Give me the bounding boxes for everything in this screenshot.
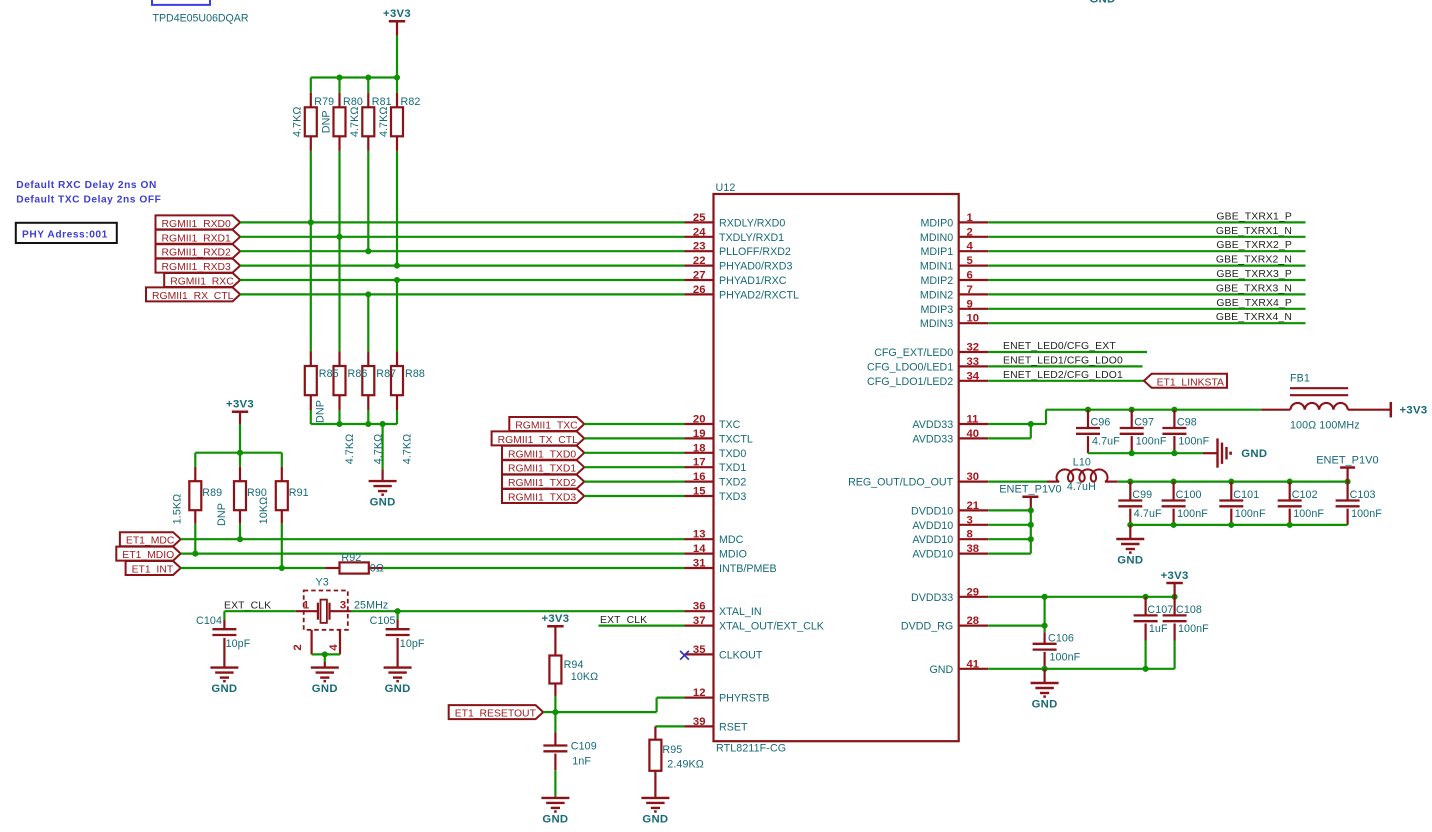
svg-text:TXD1: TXD1	[719, 462, 746, 474]
svg-text:GND: GND	[542, 814, 568, 826]
resistor R82 4.7KΩ	[378, 78, 403, 151]
svg-text:RGMII1_RXD0: RGMII1_RXD0	[162, 219, 232, 230]
svg-text:TXD3: TXD3	[719, 491, 746, 503]
wire R91 to row	[281, 524, 283, 568]
svg-text:DNP: DNP	[314, 400, 326, 423]
svg-text:AVDD10: AVDD10	[912, 549, 953, 561]
svg-text:0Ω: 0Ω	[370, 563, 384, 575]
resistor R91 10KΩ	[258, 453, 309, 525]
pin 35 CLKOUT	[685, 644, 763, 662]
svg-text:21: 21	[967, 500, 980, 512]
power +3V3 (after FB1)	[1391, 402, 1428, 418]
wire DVDD10 pin 21	[988, 509, 1031, 511]
svg-text:RGMII1_RX_CTL: RGMII1_RX_CTL	[152, 291, 234, 302]
junction gnd rail/C100	[1171, 522, 1177, 528]
svg-text:40: 40	[967, 428, 980, 440]
resistor R88 4.7KΩ	[391, 351, 413, 464]
svg-text:16: 16	[693, 471, 706, 483]
wire R81 to RXD2	[367, 151, 369, 251]
junction AVDD10 pin21	[1028, 507, 1034, 513]
svg-text:GND: GND	[312, 683, 338, 695]
svg-text:RGMII1_TXD1: RGMII1_TXD1	[508, 464, 576, 475]
pin 12 PHYRSTB	[685, 687, 770, 705]
svg-text:U12: U12	[716, 182, 736, 194]
junction Y3 ground stem	[322, 651, 328, 657]
wire ENET_LED1/CFG_LDO0	[988, 365, 1142, 367]
svg-text:DVDD10: DVDD10	[911, 505, 953, 517]
junction RXD0/R79	[308, 219, 314, 225]
pin 25 RXDLY/RXD0	[685, 212, 786, 230]
ground (AVDD33 caps)	[1203, 438, 1267, 467]
svg-text:10KΩ: 10KΩ	[258, 497, 270, 524]
label TPD4E05U06DQAR	[153, 13, 249, 25]
svg-text:R89: R89	[202, 487, 222, 499]
wire RGMII1_TXC	[584, 423, 684, 425]
wire R89-R91 top rail	[195, 452, 281, 454]
svg-text:1nF: 1nF	[572, 756, 591, 768]
pin 11 AVDD33	[912, 414, 988, 432]
svg-text:100nF: 100nF	[1136, 436, 1167, 448]
svg-text:GBE_TXRX4_P: GBE_TXRX4_P	[1216, 298, 1292, 309]
svg-text:MDIP1: MDIP1	[921, 246, 954, 258]
svg-text:DVDD33: DVDD33	[911, 592, 953, 604]
junction AVDD33/C96	[1085, 407, 1091, 413]
svg-text:RGMII1_TXD3: RGMII1_TXD3	[508, 493, 576, 504]
wire DVDD_RG pin 28	[988, 624, 1044, 626]
svg-text:+3V3: +3V3	[226, 399, 254, 411]
junction AVDD33/C98	[1171, 407, 1177, 413]
svg-text:ET1_INT: ET1_INT	[132, 565, 174, 576]
wire AVDD10 pin 8	[988, 538, 1031, 540]
note: Default TXC Delay 2ns OFF	[16, 195, 161, 206]
label R79	[314, 96, 334, 108]
label ENET_LED2/CFG_LDO1	[1003, 370, 1123, 381]
net flag RGMII1_TX_CTL	[492, 431, 585, 446]
svg-text:2: 2	[292, 644, 304, 650]
wire GBE_TXRX1_P	[988, 221, 1305, 223]
pin 17 TXD1	[685, 457, 747, 475]
label R88	[405, 368, 425, 380]
svg-text:DVDD_RG: DVDD_RG	[901, 621, 953, 633]
wire R82 to RXD3	[396, 151, 398, 266]
wire DVDD33 pin 29	[988, 596, 1174, 598]
ferrite bead FB1 100R 100MHz	[1261, 373, 1391, 432]
svg-text:25MHz: 25MHz	[354, 600, 388, 612]
pin 26 PHYAD2/RXCTL	[685, 284, 800, 302]
svg-text:C105: C105	[370, 615, 396, 627]
junction DVDD_RG/C106	[1042, 623, 1048, 629]
net flag RGMII1_RXC	[164, 273, 240, 288]
power ENET_P1V0 (AVDD10)	[999, 484, 1061, 511]
label GBE_TXRX4_N	[1216, 312, 1292, 323]
svg-text:+3V3: +3V3	[541, 613, 569, 625]
no-connect cross (CLKOUT)	[680, 651, 689, 660]
pin 38 AVDD10	[912, 543, 988, 561]
wire AVDD33 pin 40	[988, 424, 1031, 438]
junction ET1_INT/R91	[279, 565, 285, 571]
svg-text:R86: R86	[348, 368, 368, 380]
wire flag to node	[543, 711, 555, 713]
net flag RGMII1_RXD1	[156, 230, 241, 245]
pin 2 MDIN0	[920, 226, 988, 244]
svg-text:C102: C102	[1292, 489, 1318, 501]
svg-text:DNP: DNP	[216, 503, 228, 526]
pin 27 PHYAD1/RXC	[685, 270, 787, 288]
wire RGMII1_TXD3	[584, 495, 684, 497]
junction DVDD33/C106	[1042, 594, 1048, 600]
wire GBE_TXRX3_P	[988, 279, 1305, 281]
junction gnd rail/C101	[1228, 522, 1234, 528]
svg-text:RGMII1_TXC: RGMII1_TXC	[515, 421, 578, 432]
capacitor C97 100nF	[1120, 410, 1167, 454]
svg-text:4.7KΩ: 4.7KΩ	[349, 107, 361, 137]
svg-text:R88: R88	[405, 368, 425, 380]
wire RXC to R88	[396, 280, 398, 351]
wire C99-C103 ground rail	[1130, 524, 1347, 526]
resistor R86 4.7KΩ	[334, 351, 356, 464]
svg-text:20: 20	[693, 414, 706, 426]
svg-text:C101: C101	[1233, 489, 1259, 501]
svg-text:100Ω 100MHz: 100Ω 100MHz	[1290, 420, 1360, 432]
svg-text:PHYAD2/RXCTL: PHYAD2/RXCTL	[719, 289, 799, 301]
svg-text:MDIN3: MDIN3	[920, 318, 953, 330]
net flag RGMII1_TXD0	[502, 446, 584, 461]
svg-text:RGMII1_TXD0: RGMII1_TXD0	[508, 449, 576, 460]
junction pin41/C107	[1143, 666, 1149, 672]
pin 23 PLLOFF/RXD2	[685, 241, 791, 259]
capacitor C104 10pF	[196, 611, 251, 695]
svg-text:7: 7	[967, 284, 973, 296]
junction XTAL wire/C105	[395, 608, 401, 614]
svg-text:XTAL_OUT/EXT_CLK: XTAL_OUT/EXT_CLK	[719, 621, 825, 633]
svg-text:39: 39	[693, 716, 706, 728]
svg-text:+3V3: +3V3	[1400, 405, 1428, 417]
wire R90 to row	[239, 524, 241, 540]
svg-text:24: 24	[693, 226, 706, 238]
svg-text:TXC: TXC	[719, 419, 741, 431]
net flag RGMII1_RXD0	[156, 215, 241, 230]
net flag ET1_RESETOUT	[449, 705, 544, 720]
capacitor C100 100nF	[1162, 482, 1209, 525]
svg-text:100nF: 100nF	[1178, 623, 1209, 635]
svg-text:MDIP2: MDIP2	[921, 275, 954, 287]
pin 18 TXD0	[685, 442, 747, 460]
wire C96-C98 ground rail	[1088, 452, 1203, 454]
svg-text:4.7KΩ: 4.7KΩ	[344, 434, 356, 464]
svg-text:MDC: MDC	[719, 534, 744, 546]
svg-text:11: 11	[967, 414, 979, 426]
pin 30 REG_OUT/LDO_OUT	[848, 471, 988, 489]
net flag RGMII1_TXD2	[502, 475, 584, 490]
wire pull-down rail	[311, 423, 397, 425]
svg-text:C97: C97	[1134, 417, 1154, 429]
power +3V3 (R94)	[541, 613, 569, 641]
svg-text:C100: C100	[1176, 489, 1202, 501]
svg-text:PLLOFF/RXD2: PLLOFF/RXD2	[719, 246, 791, 258]
net flag RGMII1_RXD3	[156, 259, 241, 274]
svg-text:26: 26	[693, 284, 706, 296]
svg-text:MDIO: MDIO	[719, 549, 747, 561]
wire C104 to Y3 pin1	[224, 610, 295, 612]
wire ET1_MDC to MDC	[181, 538, 685, 540]
wire REG_OUT to L10	[988, 481, 1047, 483]
svg-text:GND: GND	[1241, 448, 1267, 460]
wire RGMII1_RXD0	[240, 221, 684, 223]
label GBE_TXRX3_P	[1216, 269, 1292, 280]
svg-text:C109: C109	[571, 741, 597, 753]
junction rail/R87	[365, 421, 371, 427]
svg-text:R82: R82	[401, 96, 421, 108]
svg-text:REG_OUT/LDO_OUT: REG_OUT/LDO_OUT	[848, 477, 954, 489]
svg-text:PHYAD1/RXC: PHYAD1/RXC	[719, 275, 787, 287]
svg-text:41: 41	[967, 658, 980, 670]
svg-text:Default TXC Delay 2ns OFF: Default TXC Delay 2ns OFF	[16, 195, 161, 206]
svg-text:2.49KΩ: 2.49KΩ	[667, 758, 704, 770]
pin 8 AVDD10	[912, 529, 988, 547]
svg-text:100nF: 100nF	[1235, 508, 1266, 520]
resistor R89 1.5KΩ	[171, 453, 222, 525]
svg-text:32: 32	[967, 342, 980, 354]
wire RSET to R95	[655, 725, 684, 727]
pin 22 PHYAD0/RXD3	[685, 255, 793, 273]
svg-text:100nF: 100nF	[1177, 508, 1208, 520]
wire ENET_LED2/CFG_LDO1	[988, 380, 1144, 382]
resistor R81 4.7KΩ	[349, 78, 374, 151]
svg-text:100nF: 100nF	[1351, 508, 1382, 520]
capacitor C98 100nF	[1162, 410, 1209, 454]
junction gnd rail/C97	[1129, 450, 1135, 456]
TVS diode box (clipped at top)	[152, 0, 210, 5]
wire R89 to row	[194, 524, 196, 554]
svg-text:RXDLY/RXD0: RXDLY/RXD0	[719, 217, 785, 229]
junction P1V0 rail/C101	[1228, 479, 1234, 485]
pin 6 MDIP2	[921, 270, 989, 288]
svg-text:GBE_TXRX4_N: GBE_TXRX4_N	[1216, 312, 1292, 323]
pin 21 DVDD10	[911, 500, 988, 518]
wire AVDD33 rail	[1046, 410, 1261, 424]
svg-text:R92: R92	[341, 552, 361, 564]
svg-text:GBE_TXRX3_N: GBE_TXRX3_N	[1216, 283, 1292, 294]
label R81	[372, 96, 392, 108]
net flag RGMII1_TXD3	[502, 489, 584, 504]
ground label (clipped at top)	[1089, 0, 1115, 6]
resistor R79 4.7KΩ	[292, 78, 317, 151]
junction AVDD33/C97	[1129, 407, 1135, 413]
capacitor C102 100nF	[1278, 482, 1325, 525]
junction RX_CTL/R87	[365, 291, 371, 297]
svg-text:3: 3	[967, 514, 973, 526]
svg-text:17: 17	[693, 457, 706, 469]
junction ET1_MDC/R90	[237, 536, 243, 542]
resistor R85 DNP	[305, 351, 327, 424]
svg-text:6: 6	[967, 270, 973, 282]
svg-text:4.7uH: 4.7uH	[1067, 481, 1096, 493]
junction DVDD33/C107	[1143, 594, 1149, 600]
resistor R90 DNP	[216, 453, 267, 526]
label ENET_LED1/CFG_LDO0	[1003, 355, 1123, 366]
capacitor C109 1nF	[541, 712, 596, 825]
wire EXT_CLK stub	[599, 624, 685, 626]
svg-text:14: 14	[693, 543, 706, 555]
pin 37 XTAL_OUT/EXT_CLK	[685, 615, 825, 633]
svg-text:10pF: 10pF	[400, 638, 425, 650]
svg-text:4.7uF: 4.7uF	[1134, 508, 1162, 520]
svg-text:34: 34	[967, 370, 980, 382]
wire RGMII1_RX_CTL	[240, 293, 684, 295]
wire GBE_TXRX4_P	[988, 308, 1305, 310]
pin 29 DVDD33	[911, 586, 988, 604]
svg-text:1.5KΩ: 1.5KΩ	[171, 494, 183, 524]
svg-text:ET1_RESETOUT: ET1_RESETOUT	[455, 709, 537, 720]
label GBE_TXRX1_N	[1216, 226, 1292, 237]
pin 13 MDC	[685, 529, 744, 547]
pin 40 AVDD33	[912, 428, 988, 446]
svg-text:13: 13	[693, 529, 706, 541]
svg-text:CFG_LDO0/LED1: CFG_LDO0/LED1	[867, 361, 953, 373]
svg-text:100nF: 100nF	[1050, 651, 1081, 663]
svg-text:RGMII1_RXD1: RGMII1_RXD1	[162, 233, 232, 244]
crystal Y3 25MHz	[292, 577, 388, 655]
junction AVDD10 pin8	[1028, 536, 1034, 542]
svg-text:R79: R79	[314, 96, 334, 108]
svg-text:GND: GND	[1032, 699, 1058, 711]
svg-text:GBE_TXRX2_N: GBE_TXRX2_N	[1216, 255, 1292, 266]
svg-text:FB1: FB1	[1290, 373, 1310, 385]
junction on pull-up bus at R80	[336, 74, 342, 80]
wire GBE_TXRX2_N	[988, 265, 1305, 267]
junction top rail/R90	[237, 450, 243, 456]
svg-text:RGMII1_RXD3: RGMII1_RXD3	[162, 262, 232, 273]
svg-text:Default RXC Delay 2ns ON: Default RXC Delay 2ns ON	[16, 180, 157, 191]
svg-text:4: 4	[967, 241, 974, 253]
svg-text:R81: R81	[372, 96, 392, 108]
inductor L10 4.7uH	[1047, 457, 1118, 493]
svg-text:C99: C99	[1132, 489, 1152, 501]
svg-text:ET1_MDIO: ET1_MDIO	[122, 550, 174, 561]
pin 36 XTAL_IN	[685, 601, 762, 619]
svg-text:TXD0: TXD0	[719, 448, 746, 460]
svg-text:MDIP0: MDIP0	[921, 217, 954, 229]
svg-text:29: 29	[967, 586, 980, 598]
pin 39 RSET	[685, 716, 748, 734]
wire AVDD10 column	[1030, 510, 1032, 553]
svg-text:CLKOUT: CLKOUT	[719, 649, 763, 661]
svg-text:15: 15	[693, 486, 706, 498]
capacitor C99 4.7uF	[1118, 482, 1162, 525]
ground (pull-down rail)	[369, 424, 397, 509]
junction rail/R86	[336, 421, 342, 427]
label R85	[319, 368, 339, 380]
label GBE_TXRX3_N	[1216, 283, 1292, 294]
junction RXD3/R82	[394, 263, 400, 269]
wire RGMII1_TX_CTL	[584, 437, 684, 439]
svg-text:4: 4	[328, 644, 340, 651]
wire ENET_P1V0 rail	[1118, 481, 1348, 483]
junction P1V0 rail/C103	[1345, 479, 1351, 485]
label ENET_LED0/CFG_EXT	[1003, 341, 1116, 352]
svg-text:ENET_LED0/CFG_EXT: ENET_LED0/CFG_EXT	[1003, 341, 1116, 352]
note: Default RXC Delay 2ns ON	[16, 180, 157, 191]
svg-text:RGMII1_RXC: RGMII1_RXC	[170, 277, 234, 288]
svg-text:+3V3: +3V3	[383, 8, 411, 20]
svg-text:3: 3	[340, 600, 346, 612]
junction AVDD10 pin3	[1028, 522, 1034, 528]
svg-text:GND: GND	[1117, 555, 1143, 567]
resistor R87 4.7KΩ	[362, 351, 384, 464]
wire R79 to RXD0	[310, 151, 312, 223]
junction P1V0 rail/C102	[1287, 479, 1293, 485]
svg-text:ENET_P1V0: ENET_P1V0	[1316, 455, 1378, 467]
junction ET1_MDIO/R89	[192, 551, 198, 557]
capacitor C103 100nF	[1336, 482, 1383, 525]
capacitor C106 100nF	[1033, 626, 1081, 669]
pin 24 TXDLY/RXD1	[685, 226, 785, 244]
wire RGMII1_RXD1	[240, 236, 684, 238]
svg-text:TXD2: TXD2	[719, 477, 746, 489]
svg-text:4.7KΩ: 4.7KΩ	[401, 434, 413, 464]
junction RESET node	[552, 709, 558, 715]
wire pull-up bus	[311, 76, 397, 78]
wire RGMII1_RXD3	[240, 265, 684, 267]
svg-text:C98: C98	[1177, 417, 1197, 429]
svg-text:EXT_CLK: EXT_CLK	[600, 615, 647, 626]
wire GBE_TXRX3_N	[988, 293, 1305, 295]
svg-text:MDIN1: MDIN1	[920, 261, 953, 273]
wire GBE_TXRX4_N	[988, 322, 1305, 324]
svg-text:1: 1	[303, 600, 309, 612]
svg-text:R95: R95	[662, 744, 682, 756]
wire RGMII1_RXD2	[240, 250, 684, 252]
svg-text:5: 5	[967, 255, 973, 267]
svg-text:10KΩ: 10KΩ	[571, 671, 598, 683]
svg-text:9: 9	[967, 298, 973, 310]
pin 4 MDIP1	[921, 241, 989, 259]
svg-text:4.7uF: 4.7uF	[1092, 436, 1120, 448]
junction pin41/C106	[1042, 666, 1048, 672]
svg-text:10pF: 10pF	[226, 638, 251, 650]
net flag RGMII1_RXD2	[156, 244, 241, 259]
pin 32 CFG_EXT/LED0	[874, 342, 988, 360]
svg-text:19: 19	[693, 428, 706, 440]
junction AVDD33 pins 11/40	[1028, 421, 1034, 427]
svg-text:PHYAD0/RXD3: PHYAD0/RXD3	[719, 261, 793, 273]
svg-text:RGMII1_TX_CTL: RGMII1_TX_CTL	[498, 435, 578, 446]
capacitor C96 4.7uF	[1076, 410, 1120, 454]
svg-text:30: 30	[967, 471, 980, 483]
svg-text:100nF: 100nF	[1178, 436, 1209, 448]
pin 3 AVDD10	[912, 514, 988, 532]
wire RGMII1_TXD0	[584, 452, 684, 454]
pin 15 TXD3	[685, 486, 747, 504]
svg-text:C104: C104	[196, 615, 222, 627]
net flag RGMII1_RX_CTL	[146, 287, 240, 302]
svg-text:PHYRSTB: PHYRSTB	[719, 693, 769, 705]
wire RGMII1_TXD2	[584, 481, 684, 483]
net flag RGMII1_TXC	[509, 417, 584, 432]
svg-text:38: 38	[967, 543, 980, 555]
net flag RGMII1_TXD1	[502, 460, 584, 475]
label GBE_TXRX2_P	[1216, 240, 1292, 251]
svg-text:TPD4E05U06DQAR: TPD4E05U06DQAR	[153, 13, 249, 25]
svg-text:AVDD10: AVDD10	[912, 520, 953, 532]
svg-text:GBE_TXRX1_N: GBE_TXRX1_N	[1216, 226, 1292, 237]
svg-text:2: 2	[967, 226, 973, 238]
svg-text:TXDLY/RXD1: TXDLY/RXD1	[719, 232, 784, 244]
pin 5 MDIN1	[920, 255, 988, 273]
pin 14 MDIO	[685, 543, 747, 561]
wire GND pin 41	[988, 668, 1174, 670]
pin 16 TXD2	[685, 471, 747, 489]
